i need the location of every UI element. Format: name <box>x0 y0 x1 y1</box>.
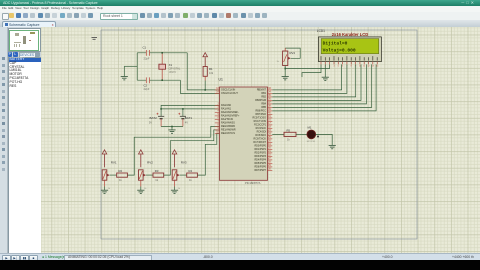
wire RV2 to MCU <box>164 130 220 175</box>
svg-text:5: 5 <box>338 65 339 67</box>
battery BAT2 <box>149 113 164 127</box>
svg-text:22pF: 22pF <box>144 87 150 91</box>
window title bar <box>0 0 480 6</box>
svg-text:X1: X1 <box>169 63 173 67</box>
svg-text:RE2/AN7/CS: RE2/AN7/CS <box>221 132 235 135</box>
U1 right pin stubs and numbers <box>268 90 273 170</box>
sheet corner mark <box>92 37 98 39</box>
node: crystal junctions <box>161 52 163 81</box>
svg-text:Dijital=0: Dijital=0 <box>323 41 348 47</box>
battery BAT1 <box>178 109 192 127</box>
svg-text:LCD1: LCD1 <box>317 29 325 33</box>
node: battery rail junctions <box>160 108 183 110</box>
ground (batteries) <box>168 130 175 133</box>
svg-text:PIC16F877A: PIC16F877A <box>245 181 261 185</box>
svg-text:22pF: 22pF <box>144 57 150 61</box>
wire OSC2 <box>180 80 219 93</box>
ground (motor) <box>329 145 336 148</box>
svg-text:RV3: RV3 <box>181 161 187 165</box>
svg-text:11: 11 <box>363 65 365 67</box>
svg-text:RD7/PSP7: RD7/PSP7 <box>254 169 266 172</box>
potentiometer RV2 <box>139 170 144 180</box>
svg-text:R1: R1 <box>209 67 213 71</box>
resistor R3 <box>146 174 153 176</box>
svg-text:12: 12 <box>367 65 369 67</box>
svg-text:4V: 4V <box>185 120 188 124</box>
svg-text:5V: 5V <box>149 120 152 124</box>
ground (RV3) <box>174 187 176 191</box>
wire R5 to motor <box>296 133 307 135</box>
power terminal (RV3) <box>172 150 177 154</box>
status bar <box>0 253 480 261</box>
svg-text:MOTOR: MOTOR <box>307 141 316 143</box>
svg-text:16MHz: 16MHz <box>169 71 177 74</box>
wire RV1 to MCU <box>127 126 219 175</box>
ground (RV4) <box>282 77 289 80</box>
wire OSC1 <box>187 53 219 90</box>
node: R1/OSC1 junction <box>204 89 206 91</box>
svg-text:R5: R5 <box>287 128 291 132</box>
svg-text:13: 13 <box>372 65 374 67</box>
wire MCU to R5 <box>272 133 284 135</box>
svg-text:10: 10 <box>359 65 361 67</box>
tab bar <box>0 20 480 28</box>
resistor R5 <box>284 132 296 136</box>
svg-text:C2: C2 <box>144 84 148 88</box>
potentiometer RV4 (LCD contrast) <box>283 51 288 66</box>
svg-text:RV1: RV1 <box>111 161 117 165</box>
capacitor C2 <box>146 77 149 83</box>
svg-text:M1: M1 <box>308 125 312 129</box>
wire battery rail to RA1 <box>161 108 219 110</box>
wire: oscillator rails <box>124 53 187 80</box>
ground (oscillator) <box>121 77 128 80</box>
resistor R2 <box>110 174 117 176</box>
svg-text:RV2: RV2 <box>147 161 153 165</box>
svg-text:10k: 10k <box>209 71 214 75</box>
device list <box>8 57 43 254</box>
svg-text:Voltaj=0.000: Voltaj=0.000 <box>323 47 356 53</box>
svg-text:4: 4 <box>333 65 334 67</box>
capacitor C1 <box>146 50 149 56</box>
svg-text:U1: U1 <box>219 77 223 81</box>
bottom black strip <box>0 260 480 270</box>
sheet border <box>101 30 417 239</box>
wire BAT2 to RA0 <box>161 105 219 116</box>
svg-text:R4: R4 <box>189 169 193 173</box>
ground (RV2) <box>140 187 142 191</box>
resistor R1 <box>203 67 207 77</box>
wire VDD to ground <box>324 64 326 77</box>
wire bundle MCU to LCD <box>272 64 376 111</box>
svg-text:14: 14 <box>376 65 378 67</box>
ground (RV1) <box>104 187 106 191</box>
menu bar <box>0 6 480 12</box>
U1 left pin stubs and numbers <box>215 90 220 133</box>
wire RV3 to MCU <box>197 133 219 175</box>
svg-text:BAT2: BAT2 <box>150 116 158 120</box>
toolbar <box>0 12 480 21</box>
wire VEE to contrast pot <box>285 64 329 68</box>
power terminal (RV2) <box>139 150 144 154</box>
resistor R4 <box>180 174 187 176</box>
wire motor to ground <box>316 134 333 145</box>
LCD1 pin marks <box>321 56 377 61</box>
power terminal (R1) <box>203 53 208 57</box>
svg-text:2x16 Karakter LCD: 2x16 Karakter LCD <box>332 32 368 37</box>
svg-text:8: 8 <box>351 65 352 67</box>
svg-text:BAT1: BAT1 <box>185 116 193 120</box>
svg-text:OSC2/CLKOUT: OSC2/CLKOUT <box>221 92 238 95</box>
ground (LCD) <box>322 77 329 80</box>
P L DEVICES row <box>8 52 41 58</box>
potentiometer RV1 <box>102 170 107 180</box>
potentiometer RV3 <box>172 170 177 180</box>
svg-text:R3: R3 <box>155 169 159 173</box>
motor M1 <box>307 130 316 139</box>
svg-text:6: 6 <box>342 65 343 67</box>
svg-text:RV4: RV4 <box>290 51 296 55</box>
power terminal (RV1) <box>102 150 107 154</box>
svg-text:R2: R2 <box>119 169 123 173</box>
overview minimap <box>8 28 41 52</box>
svg-text:C1: C1 <box>143 46 147 50</box>
wire VSS <box>302 64 321 77</box>
wire: battery commons <box>161 127 183 130</box>
crystal X1 <box>159 53 166 80</box>
left tool column <box>0 27 8 253</box>
